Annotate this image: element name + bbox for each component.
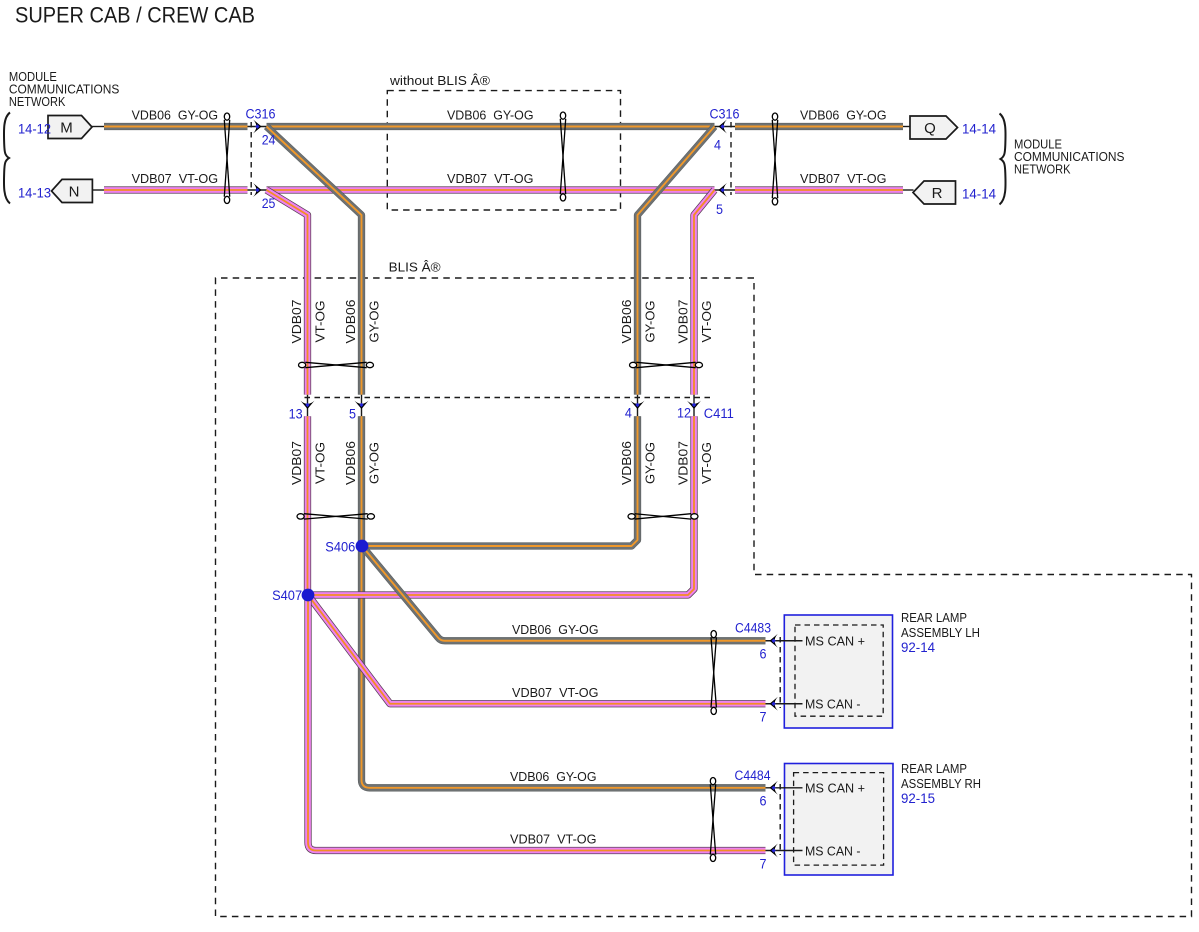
lead line connector Q xyxy=(903,126,911,128)
svg-text:C316: C316 xyxy=(246,107,276,122)
svg-text:REAR LAMP: REAR LAMP xyxy=(901,610,967,625)
wire VDB06 GY-OG C316 pin 24 to C411 pin 5 xyxy=(267,127,362,395)
brace right module communications network xyxy=(1000,114,1006,205)
wire VDB06 GY-OG C316 to C316 without BLIS xyxy=(267,123,715,130)
wire VDB07 VT-OG C411 pin 13 to splice S407 xyxy=(304,416,311,595)
connector C4484 dashed line xyxy=(779,784,781,855)
svg-text:C4484: C4484 xyxy=(735,768,771,783)
svg-text:5: 5 xyxy=(716,202,723,217)
svg-text:14-14: 14-14 xyxy=(962,187,996,202)
svg-text:VDB06 GY-OG: VDB06 GY-OG xyxy=(512,622,599,637)
BLIS dashed region outline xyxy=(216,278,1192,917)
label REAR LAMP ASSEMBLY RH xyxy=(901,761,981,806)
wire VDB06 GY-OG C411 pin 5 to splice S406 xyxy=(358,416,365,546)
svg-text:VDB06 GY-OG: VDB06 GY-OG xyxy=(132,107,219,122)
svg-text:VDB07 VT-OG: VDB07 VT-OG xyxy=(512,685,599,700)
svg-text:12: 12 xyxy=(677,406,691,421)
twisted pair symbol left pair below C411 xyxy=(297,514,375,519)
svg-text:VT-OG: VT-OG xyxy=(313,301,328,343)
svg-text:14-12: 14-12 xyxy=(18,122,51,137)
twisted pair symbol at C4483 xyxy=(711,631,716,715)
svg-text:Q: Q xyxy=(924,120,936,137)
wire VDB06 GY-OG C316 pin 4 to connector Q xyxy=(735,123,903,130)
svg-text:92-14: 92-14 xyxy=(901,640,935,655)
connector N xyxy=(52,179,93,202)
wire VDB07 VT-OG C411 pin 12 to splice S407 xyxy=(308,416,694,595)
svg-text:VT-OG: VT-OG xyxy=(699,442,714,484)
splice S407 xyxy=(302,589,315,602)
svg-text:6: 6 xyxy=(760,647,767,662)
svg-text:25: 25 xyxy=(262,196,276,211)
twisted pair symbol at C4484 xyxy=(710,778,715,862)
tail line C4484 pin 6 xyxy=(764,787,803,789)
svg-text:4: 4 xyxy=(714,138,721,153)
twisted pair symbol left pair above C411 xyxy=(299,362,374,367)
twisted pair symbol right of C316 xyxy=(772,113,777,205)
arrow C411 pin 5 xyxy=(355,401,369,409)
svg-text:VDB06 GY-OG: VDB06 GY-OG xyxy=(800,107,887,122)
lead line connector M xyxy=(92,126,104,128)
arrow C4483 pin 6 xyxy=(770,634,778,648)
tail line C4483 pin 6 xyxy=(764,640,803,642)
wire VDB07 VT-OG C316 pin 5 to connector R xyxy=(735,186,903,193)
connector C316 right dashed line xyxy=(730,122,732,195)
arrow C4483 pin 7 xyxy=(770,697,778,711)
svg-text:GY-OG: GY-OG xyxy=(367,442,382,484)
arrow C316 pin 5 xyxy=(719,183,727,197)
arrow C316 pin 4 xyxy=(719,120,727,134)
svg-text:14-14: 14-14 xyxy=(962,122,996,137)
svg-text:SUPER CAB / CREW CAB: SUPER CAB / CREW CAB xyxy=(15,3,255,28)
svg-text:MS CAN -: MS CAN - xyxy=(805,843,861,858)
svg-text:VT-OG: VT-OG xyxy=(313,442,328,484)
tail line C411 pin 13 xyxy=(307,395,309,417)
svg-text:92-15: 92-15 xyxy=(901,791,935,806)
svg-text:MS CAN +: MS CAN + xyxy=(805,781,865,796)
twisted pair symbol without BLIS box xyxy=(560,112,565,201)
svg-text:ASSEMBLY LH: ASSEMBLY LH xyxy=(901,625,980,640)
without BLIS dashed box xyxy=(387,91,620,210)
svg-text:VT-OG: VT-OG xyxy=(699,301,714,343)
svg-text:MS CAN +: MS CAN + xyxy=(805,634,865,649)
label REAR LAMP ASSEMBLY LH xyxy=(901,610,980,655)
rear lamp assembly LH box xyxy=(784,615,892,728)
wire VDB06 GY-OG connector M to C316 pin 24 xyxy=(104,123,248,130)
svg-text:VDB07 VT-OG: VDB07 VT-OG xyxy=(447,171,534,186)
svg-text:GY-OG: GY-OG xyxy=(643,301,658,343)
svg-text:VDB07 VT-OG: VDB07 VT-OG xyxy=(800,171,887,186)
tail line C316 pin 4 xyxy=(715,126,736,128)
arrow C411 pin 13 xyxy=(301,401,315,409)
svg-text:VDB07: VDB07 xyxy=(676,441,691,485)
wire VDB07 VT-OG splice S407 to C4483 pin 7 xyxy=(308,595,766,704)
svg-text:C411: C411 xyxy=(704,406,734,421)
wire VDB07 VT-OG C316 pin 25 to C411 pin 13 xyxy=(267,190,308,395)
wire VDB07 VT-OG C316 pin 5 to C411 pin 12 xyxy=(694,190,715,395)
wire VDB07 VT-OG splice S407 to C4484 pin 7 xyxy=(308,595,766,851)
lead line connector N xyxy=(92,189,104,191)
connector C4483 dashed line xyxy=(779,637,781,708)
tail line C4484 pin 7 xyxy=(764,850,803,852)
wire VDB06 GY-OG C411 pin 4 to splice S406 xyxy=(362,416,638,546)
svg-text:VDB07: VDB07 xyxy=(676,300,691,344)
svg-text:24: 24 xyxy=(262,133,276,148)
svg-text:VDB07: VDB07 xyxy=(289,441,304,485)
connector R xyxy=(913,181,956,204)
svg-text:NETWORK: NETWORK xyxy=(1014,162,1071,177)
svg-text:NETWORK: NETWORK xyxy=(9,94,66,109)
svg-text:6: 6 xyxy=(760,794,767,809)
tail line C316 pin 25 xyxy=(248,189,267,191)
tail line C4483 pin 7 xyxy=(764,703,803,705)
arrow C316 pin 24 xyxy=(253,120,261,134)
svg-text:BLIS Â®: BLIS Â® xyxy=(389,260,441,275)
twisted pair symbol left of C316 xyxy=(224,113,229,203)
svg-text:without BLIS Â®: without BLIS Â® xyxy=(389,73,490,88)
tail line C411 pin 4 xyxy=(637,395,639,417)
rear lamp assembly RH box xyxy=(785,764,894,876)
svg-text:VDB06 GY-OG: VDB06 GY-OG xyxy=(447,107,534,122)
svg-text:N: N xyxy=(69,183,80,200)
svg-text:7: 7 xyxy=(760,856,767,871)
arrow C411 pin 4 xyxy=(631,401,645,409)
svg-text:MS CAN -: MS CAN - xyxy=(805,697,861,712)
label module communications network left xyxy=(9,69,120,109)
connector C316 left dashed line xyxy=(250,122,252,195)
svg-text:M: M xyxy=(60,119,73,136)
svg-text:5: 5 xyxy=(349,406,356,421)
svg-text:VDB06: VDB06 xyxy=(619,441,634,485)
connector M xyxy=(48,116,92,139)
tail line C411 pin 12 xyxy=(693,395,695,417)
svg-text:ASSEMBLY RH: ASSEMBLY RH xyxy=(901,776,981,791)
wire VDB07 VT-OG connector N to C316 pin 25 xyxy=(104,186,248,193)
svg-text:VDB06 GY-OG: VDB06 GY-OG xyxy=(510,769,597,784)
svg-text:4: 4 xyxy=(625,406,632,421)
tail line C411 pin 5 xyxy=(361,395,363,417)
connector Q xyxy=(910,116,958,139)
wire VDB06 GY-OG C316 pin 4 to C411 pin 4 xyxy=(638,127,715,395)
wire VDB06 GY-OG splice S406 to C4484 pin 6 xyxy=(362,546,766,788)
arrow C4484 pin 7 xyxy=(770,844,778,858)
svg-text:VDB07 VT-OG: VDB07 VT-OG xyxy=(132,171,219,186)
svg-text:VDB07: VDB07 xyxy=(289,300,304,344)
svg-text:REAR LAMP: REAR LAMP xyxy=(901,761,967,776)
tail line C316 pin 24 xyxy=(248,126,267,128)
svg-text:VDB06: VDB06 xyxy=(619,300,634,344)
lead line connector R xyxy=(903,189,914,191)
svg-text:13: 13 xyxy=(289,406,303,421)
arrow C4484 pin 6 xyxy=(770,781,778,795)
wire VDB06 GY-OG splice S406 to C4483 pin 6 xyxy=(362,546,766,641)
svg-text:GY-OG: GY-OG xyxy=(643,442,658,484)
svg-text:C316: C316 xyxy=(710,107,740,122)
svg-text:VDB06: VDB06 xyxy=(343,441,358,485)
label module communications network right xyxy=(1014,137,1125,177)
tail line C316 pin 5 xyxy=(715,189,736,191)
connector C411 dashed line xyxy=(305,397,715,399)
svg-text:VDB07 VT-OG: VDB07 VT-OG xyxy=(510,832,597,847)
svg-text:S407: S407 xyxy=(272,588,302,603)
twisted pair symbol right pair above C411 xyxy=(630,362,703,367)
arrow C316 pin 25 xyxy=(253,183,261,197)
svg-text:R: R xyxy=(932,185,943,202)
brace left module communications network xyxy=(4,113,10,204)
svg-text:7: 7 xyxy=(760,710,767,725)
wire VDB07 VT-OG C316 to C316 without BLIS xyxy=(267,186,715,193)
svg-text:C4483: C4483 xyxy=(735,621,771,636)
svg-text:14-13: 14-13 xyxy=(18,186,51,201)
svg-text:GY-OG: GY-OG xyxy=(367,301,382,343)
arrow C411 pin 12 xyxy=(687,401,701,409)
svg-text:S406: S406 xyxy=(325,540,355,555)
svg-text:VDB06: VDB06 xyxy=(343,300,358,344)
twisted pair symbol right pair below C411 xyxy=(628,514,698,519)
splice S406 xyxy=(356,540,369,553)
